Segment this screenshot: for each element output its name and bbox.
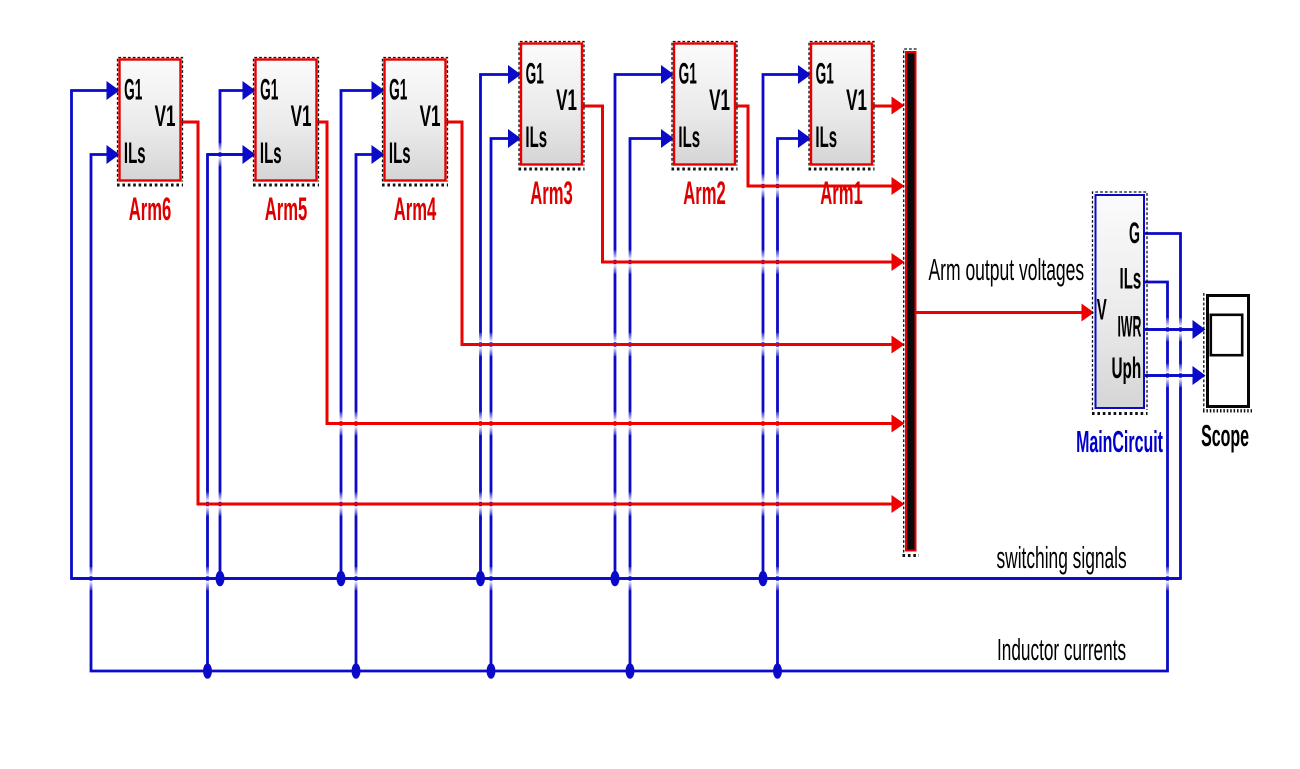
wire: Arm1 V1 output to bus input — [872, 97, 905, 115]
subsystem block MainCircuit — [1092, 192, 1148, 414]
subsystem block Arm5 — [253, 58, 319, 186]
svg-text:ILs: ILs — [815, 122, 837, 155]
svg-text:G1: G1 — [816, 56, 834, 89]
subsystem block Arm2 — [672, 42, 738, 170]
svg-text:G1: G1 — [679, 56, 697, 89]
svg-text:switching signals: switching signals — [997, 541, 1127, 576]
svg-text:V: V — [1097, 294, 1107, 327]
svg-text:ILs: ILs — [678, 122, 700, 155]
svg-text:V1: V1 — [291, 100, 312, 133]
svg-text:V1: V1 — [155, 100, 176, 133]
svg-text:MainCircuit: MainCircuit — [1076, 426, 1163, 460]
wire: inductor current branch to Arm2 ILs — [630, 129, 674, 671]
svg-text:Arm6: Arm6 — [129, 192, 172, 227]
svg-text:ILs: ILs — [525, 122, 547, 155]
junction: inductor currents branch node for Arm5 — [203, 663, 212, 679]
wire: switching signal branch to Arm1 G1 — [763, 65, 811, 579]
junction: inductor currents branch node for Arm4 — [352, 663, 361, 679]
svg-text:G: G — [1129, 216, 1140, 249]
svg-text:Scope: Scope — [1201, 420, 1249, 454]
wire: Arm6 V1 output to bus input — [181, 122, 905, 513]
mux bus bar (arm output voltages mux) — [903, 49, 920, 556]
wire: switching signal branch to Arm3 G1 — [481, 65, 522, 579]
svg-text:Arm2: Arm2 — [683, 176, 726, 211]
svg-text:Inductor currents: Inductor currents — [997, 633, 1126, 668]
wire: switching signal branch to Arm4 G1 — [341, 81, 385, 579]
svg-text:G1: G1 — [260, 72, 278, 105]
wire: MainCircuit IWR out to Scope input 1 — [1145, 320, 1206, 339]
wire: switching signals trunk (MainCircuit G out, down and left to Arm6 G1 in) — [72, 81, 1181, 579]
wire: Arm5 V1 output to bus input — [317, 122, 905, 433]
wire: MainCircuit Uph out to Scope input 2 — [1145, 366, 1206, 385]
wire: Arm3 V1 output to bus input — [582, 106, 905, 271]
junction: switching signals branch node for Arm1 — [759, 571, 768, 587]
wire: switching signal branch to Arm5 G1 — [220, 81, 256, 579]
wire: Arm4 V1 output to bus input — [446, 122, 905, 354]
subsystem block Arm3 — [519, 42, 585, 170]
junction: inductor currents branch node for Arm2 — [626, 663, 635, 679]
wire: bus output (Arm output voltages) to MainCircuit V input — [917, 304, 1095, 322]
junction: switching signals branch node for Arm5 — [216, 571, 225, 587]
svg-text:V1: V1 — [846, 84, 867, 117]
subsystem block Arm4 — [382, 58, 448, 186]
svg-text:IWR: IWR — [1118, 309, 1142, 343]
wire: Arm2 V1 output to bus input — [735, 106, 905, 195]
wire: inductor current branch to Arm3 ILs — [491, 129, 521, 671]
junction: switching signals branch node for Arm3 — [476, 571, 485, 587]
subsystem block Arm1 — [809, 42, 875, 170]
junction: inductor currents branch node for Arm3 — [487, 663, 496, 679]
svg-text:ILs: ILs — [1120, 263, 1142, 296]
svg-text:Uph: Uph — [1111, 352, 1141, 386]
wire: inductor currents trunk (MainCircuit ILs out, down and left to Arm6 ILs in) — [91, 145, 1168, 671]
junction: switching signals branch node for Arm2 — [611, 571, 620, 587]
svg-text:ILs: ILs — [260, 138, 282, 171]
wire: re-stroke of horizontal runs over crossing gaps — [72, 155, 1196, 579]
wire: inductor current branch to Arm1 ILs — [778, 129, 812, 671]
svg-text:V1: V1 — [709, 84, 730, 117]
svg-text:G1: G1 — [526, 56, 544, 89]
scope block — [1203, 293, 1252, 411]
svg-text:V1: V1 — [556, 84, 577, 117]
svg-text:G1: G1 — [124, 72, 142, 105]
svg-text:Arm3: Arm3 — [530, 176, 573, 211]
svg-text:G1: G1 — [389, 72, 407, 105]
svg-text:ILs: ILs — [124, 138, 146, 171]
svg-text:ILs: ILs — [389, 138, 411, 171]
wire: inductor current branch to Arm4 ILs — [356, 145, 385, 671]
subsystem block Arm6 — [117, 58, 183, 186]
svg-text:Arm5: Arm5 — [265, 192, 308, 227]
svg-text:Arm4: Arm4 — [394, 192, 437, 227]
svg-text:Arm output voltages: Arm output voltages — [929, 253, 1085, 287]
svg-text:Arm1: Arm1 — [820, 176, 863, 211]
svg-text:V1: V1 — [420, 100, 441, 133]
wire: inductor current branch to Arm5 ILs — [208, 145, 256, 671]
junction: inductor currents branch node for Arm1 — [773, 663, 782, 679]
wire: switching signal branch to Arm2 G1 — [615, 65, 674, 579]
wire crossing gap whiteouts (unconnected line hops) — [89, 143, 1183, 590]
junction: switching signals branch node for Arm4 — [337, 571, 346, 587]
